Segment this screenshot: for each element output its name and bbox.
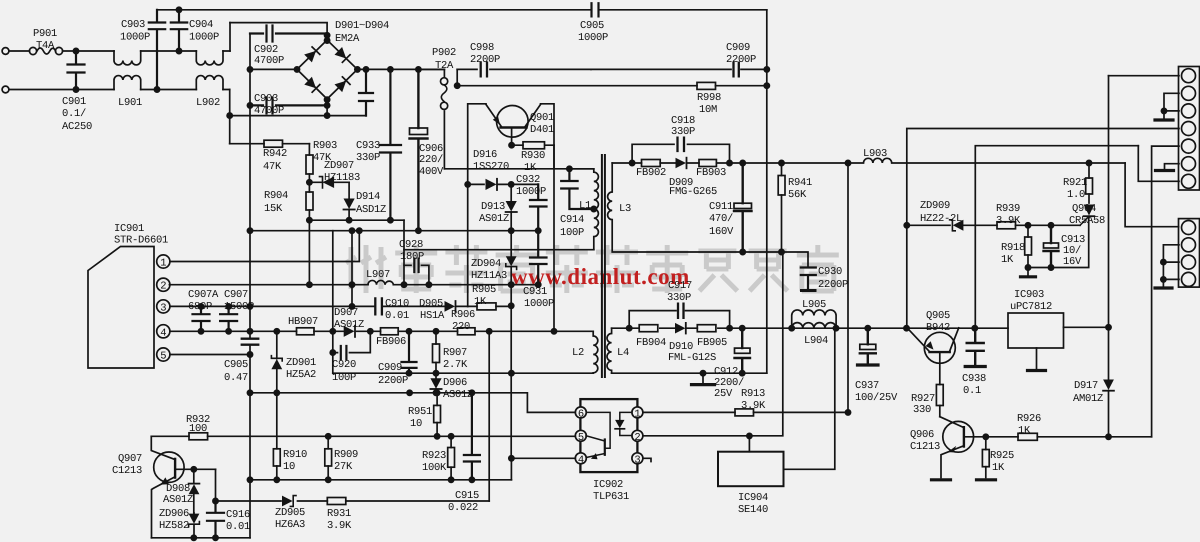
zener ZD907 HZ1183 (309, 181, 349, 183)
svg-text:100P: 100P (560, 227, 584, 239)
wire C998 corner down to R998 line (456, 69, 458, 85)
svg-text:CR5A58: CR5A58 (1069, 215, 1105, 227)
svg-text:1SS270: 1SS270 (473, 161, 509, 173)
svg-text:R941: R941 (788, 177, 812, 189)
wire Q907 base to C916 (215, 469, 217, 501)
wire pin7 line to x=975 riser (975, 146, 1138, 329)
capacitor C920 100P loop (333, 331, 371, 352)
svg-text:AC250: AC250 (62, 121, 92, 133)
transistor Q906 C1213 (943, 421, 974, 452)
wire opto pin1 line R913 (643, 411, 848, 413)
node D913/C932 bottoms (511, 230, 538, 232)
svg-text:400V: 400V (419, 166, 444, 178)
pin 1 (157, 255, 170, 268)
transformer T901 core (602, 155, 605, 377)
wire DC minus from left vertex (250, 68, 297, 70)
svg-text:SE140: SE140 (738, 504, 768, 516)
wire R926 line y=436.8 (964, 436, 1152, 438)
svg-text:HZ582: HZ582 (159, 520, 189, 532)
svg-text:L902: L902 (196, 97, 220, 109)
capacitor C912 2200/25V (735, 328, 751, 373)
wire x=333 down to L2-return (332, 353, 334, 374)
ground Q906 emitter (932, 478, 951, 481)
IC901 body STR-D6601 (88, 247, 154, 369)
svg-text:HS1A: HS1A (420, 310, 445, 322)
svg-text:L3: L3 (619, 203, 631, 215)
resistor R923 100K (450, 436, 452, 480)
svg-text:FML-G12S: FML-G12S (668, 352, 716, 364)
svg-text:47K: 47K (263, 161, 282, 173)
svg-text:C901: C901 (62, 96, 86, 108)
wire IC901 pin2 line y=284.7 (169, 284, 538, 286)
wire AC-N line to bridge bottom vertex (230, 100, 327, 116)
svg-text:ZD907: ZD907 (324, 160, 354, 172)
ground IC903 (1036, 348, 1038, 369)
svg-text:P901: P901 (33, 28, 57, 40)
winding L2 (593, 331, 598, 373)
svg-text:HZ5A2: HZ5A2 (286, 369, 316, 381)
node ZD909 line tap (904, 223, 909, 228)
svg-text:2200P: 2200P (378, 375, 408, 387)
svg-text:2: 2 (634, 432, 640, 444)
capacitor C902 4700P X-cap (250, 26, 327, 42)
winding L1 upper (569, 169, 598, 209)
wire rail A to bridge top vertex (230, 23, 327, 36)
svg-text:1: 1 (634, 408, 640, 420)
ground R925 (977, 478, 996, 481)
diode D916 1SS270 (468, 183, 539, 185)
wire x=276.8 R910 below (276, 393, 278, 480)
bridge diode top-left (304, 51, 316, 63)
wire D917 vertical x=1108.5 pin1 to R926 line (1108, 76, 1110, 437)
svg-text:FB902: FB902 (636, 167, 666, 179)
wire L3 top to FB902 line y=163 (612, 162, 848, 164)
zener ZD906 HZ582 (193, 513, 195, 538)
diode D909 FMG-G265 (676, 158, 687, 169)
capacitor C905 0.47 (242, 339, 258, 345)
capacitor C903 Y-cap upper (149, 10, 165, 90)
zener ZD909 HZ22-2L (907, 224, 997, 226)
node bridge left vertex (294, 67, 299, 72)
svg-text:C905: C905 (580, 20, 604, 32)
svg-text:330: 330 (913, 404, 931, 416)
ferrite bead FB902 (642, 160, 661, 167)
svg-text:D913: D913 (481, 201, 505, 213)
svg-text:R909: R909 (334, 449, 358, 461)
wire R904/D914 bottom line y=220.2 (309, 219, 404, 221)
inductor L907 (368, 280, 393, 284)
svg-text:2.7K: 2.7K (443, 359, 468, 371)
svg-text:0.1: 0.1 (963, 385, 981, 397)
wire top rail right corner down (766, 10, 768, 373)
svg-text:4700P: 4700P (254, 55, 284, 67)
ground R918/C913 (1027, 268, 1029, 276)
resistor R951 10 (436, 393, 438, 437)
pin 6 (575, 407, 586, 418)
pin 5 (575, 430, 586, 441)
diode D907 AS01Z (344, 326, 355, 337)
svg-text:STR-D6601: STR-D6601 (114, 235, 168, 247)
svg-text:C903: C903 (121, 19, 145, 31)
capacitor C901 (68, 51, 85, 90)
wire x=467.7 D916-to-R905 (467, 184, 469, 306)
svg-text:1000P: 1000P (120, 32, 150, 44)
svg-text:330P: 330P (667, 292, 691, 304)
svg-text:1K: 1K (1001, 254, 1014, 266)
wire IC901 pin5 line (170, 354, 250, 356)
ferrite bead FB903 (699, 160, 716, 167)
node bridge top vertex dots (325, 33, 330, 38)
wire primary ground rail y=230.7 (250, 230, 511, 232)
wire x=352 rail-to-pin3 (351, 231, 353, 307)
wire CN1 pin6 ground (1165, 164, 1180, 169)
svg-text:Q904: Q904 (1072, 203, 1096, 215)
svg-text:C998: C998 (470, 42, 494, 54)
node bridge right vertex (355, 67, 360, 72)
svg-text:C904: C904 (189, 19, 213, 31)
wire pin3-line to C910 (384, 305, 445, 307)
pin numbers IC902 (578, 408, 641, 466)
wire between chokes top (141, 50, 197, 52)
svg-text:16V: 16V (1063, 256, 1082, 268)
svg-text:C916: C916 (226, 509, 250, 521)
svg-text:3.9K: 3.9K (327, 520, 352, 532)
wire x=404 riser to 220-line (403, 220, 405, 265)
resistor R903 47K (308, 144, 310, 183)
svg-text:R923: R923 (422, 450, 446, 462)
svg-text:ASD1Z: ASD1Z (356, 204, 386, 216)
svg-text:L907: L907 (366, 269, 390, 281)
svg-text:Q907: Q907 (118, 453, 142, 465)
svg-text:1K: 1K (1018, 425, 1031, 437)
svg-text:AM01Z: AM01Z (1073, 393, 1103, 405)
connector CN2 block (1179, 219, 1200, 288)
svg-text:R921: R921 (1063, 177, 1087, 189)
winding L1 lower (594, 209, 599, 250)
svg-text:10: 10 (410, 418, 422, 430)
svg-text:R913: R913 (741, 388, 765, 400)
wire AC line bottom (9, 89, 114, 91)
wire DC plus line y=69.4 (357, 68, 444, 70)
svg-text:D916: D916 (473, 149, 497, 161)
svg-text:D905: D905 (419, 298, 443, 310)
svg-text:uPC7812: uPC7812 (1010, 301, 1052, 313)
wire IC903 out (1064, 326, 1109, 328)
wire x=489.2 R906-line down to ZD905 line (488, 331, 490, 501)
winding L4 (607, 328, 612, 373)
pin 3 (157, 300, 170, 313)
svg-text:B942: B942 (926, 322, 950, 334)
wire lower return y=479.8 (250, 479, 511, 481)
svg-text:C1213: C1213 (910, 441, 940, 453)
svg-text:C910: C910 (385, 298, 409, 310)
svg-text:FB903: FB903 (696, 167, 726, 179)
svg-text:C933: C933 (356, 140, 380, 152)
ferrite bead FB904 (639, 325, 658, 332)
wire x=250 down to bottom rail (249, 480, 251, 538)
svg-text:100P: 100P (332, 372, 356, 384)
svg-text:4: 4 (578, 454, 584, 466)
resistor R925 1K (985, 437, 987, 478)
resistor R904 15K (308, 182, 310, 220)
resistor R930 1K (512, 144, 554, 146)
wire secondary return y=250 (743, 252, 808, 268)
inductor L902 common-mode choke (196, 51, 223, 65)
svg-text:C905: C905 (224, 359, 248, 371)
wire L4 top line y=328.2 (612, 327, 1008, 329)
diode D906 AS01Z (435, 373, 437, 393)
wire B+ line y=168.8 (444, 168, 593, 170)
svg-text:T4A: T4A (36, 40, 55, 52)
svg-text:R939: R939 (996, 203, 1020, 215)
svg-text:330P: 330P (671, 126, 695, 138)
capacitor C906 220/400V electrolytic (410, 69, 428, 230)
svg-text:FB906: FB906 (376, 336, 406, 348)
wire ZD904 vertical continues to L2-return and pin4 stub (510, 306, 512, 459)
svg-text:C909: C909 (726, 42, 750, 54)
capacitor C909 2200P (402, 331, 417, 373)
wire ZD905 line y=501 (216, 500, 490, 502)
svg-text:C920: C920 (332, 359, 356, 371)
pin 4 (575, 453, 586, 464)
pin 2 (157, 278, 170, 291)
transistor Q901 D401 (497, 106, 529, 138)
svg-text:D401: D401 (530, 124, 554, 136)
svg-text:27K: 27K (334, 461, 353, 473)
capacitor C932 1000P (530, 184, 547, 230)
svg-text:AS01Z: AS01Z (163, 494, 193, 506)
wire IC901 pin3 line y=306.4 (170, 305, 375, 307)
svg-text:D901~D904: D901~D904 (335, 20, 389, 32)
svg-text:C1213: C1213 (112, 465, 142, 477)
svg-text:330P: 330P (356, 152, 380, 164)
svg-text:1K: 1K (524, 162, 537, 174)
resistor R926 1K (1018, 433, 1037, 440)
svg-text:D906: D906 (443, 377, 467, 389)
pin 3 (632, 453, 643, 464)
svg-text:HZ22-2L: HZ22-2L (920, 213, 962, 225)
svg-text:56K: 56K (788, 189, 807, 201)
node L1 tap (591, 206, 596, 211)
bridge D901~D904 diamond (297, 40, 357, 99)
svg-text:100K: 100K (422, 462, 447, 474)
capacitor C907 1500P (220, 306, 237, 331)
diode D917 AM01Z (1103, 380, 1114, 391)
IC904 SE140 box (718, 452, 784, 487)
svg-text:2200P: 2200P (726, 54, 756, 66)
thyristor Q904 CR5A58 (1084, 205, 1095, 216)
svg-text:L1: L1 (579, 200, 591, 212)
wire IC904 top pin (748, 436, 750, 452)
capacitor C937 100/25V (860, 328, 876, 363)
svg-text:R925: R925 (990, 450, 1014, 462)
svg-text:P902: P902 (432, 47, 456, 59)
svg-text:1K: 1K (992, 462, 1005, 474)
resistor R932 100 (189, 433, 208, 440)
optocoupler IC902 TLP631 box (580, 399, 637, 472)
resistor R913 3.9K (735, 409, 754, 416)
wire x=250 continues below (249, 393, 251, 480)
svg-text:R951: R951 (408, 406, 432, 418)
svg-text:R904: R904 (264, 190, 288, 202)
svg-text:IC901: IC901 (114, 223, 144, 235)
svg-text:0.01: 0.01 (385, 310, 409, 322)
svg-text:C937: C937 (855, 380, 879, 392)
inductor L901 common-mode choke (114, 51, 141, 65)
wire R998 line y=85.7 (457, 85, 767, 87)
diode D914 ASD1Z (348, 182, 350, 220)
wire riser top AC to rail A (229, 23, 231, 51)
svg-text:IC903: IC903 (1014, 289, 1044, 301)
svg-text:L905: L905 (802, 299, 826, 311)
svg-text:FMG-G265: FMG-G265 (669, 186, 717, 198)
pin 4 (157, 325, 170, 338)
bridge diode bottom-left (304, 77, 316, 89)
svg-text:C907A C907: C907A C907 (188, 289, 248, 301)
svg-text:6: 6 (578, 408, 584, 420)
capacitor C913 10/16V (1044, 225, 1059, 267)
svg-text:HZ1183: HZ1183 (324, 172, 360, 184)
wire primary return y=249.7 (404, 249, 594, 251)
svg-text:R906: R906 (451, 309, 475, 321)
wire C998/C909 line continue (591, 68, 767, 70)
transistor Q905 B942 (924, 332, 955, 363)
opto LED internal (620, 412, 632, 435)
svg-text:100/25V: 100/25V (855, 392, 898, 404)
resistor R910 10 (273, 449, 280, 466)
capacitor C930 2200P (801, 268, 816, 290)
capacitor C907A 680P (193, 306, 210, 331)
wire between chokes bottom (141, 89, 197, 91)
svg-text:C931: C931 (523, 286, 547, 298)
svg-text:R903: R903 (313, 140, 337, 152)
svg-text:10: 10 (283, 461, 295, 473)
svg-text:R918: R918 (1001, 242, 1025, 254)
opto phototransistor internal (604, 440, 606, 455)
svg-text:IC904: IC904 (738, 492, 768, 504)
zener ZD905 HZ6A3 (282, 496, 293, 507)
winding L3 (608, 163, 743, 252)
resistor R905 1K (468, 305, 512, 307)
wire pin5 riser x=1151.6 (1152, 146, 1179, 437)
svg-text:FB905: FB905 (697, 337, 727, 349)
capacitor C903 4700P X-cap (250, 97, 327, 113)
diode D913 AS01Z (510, 184, 512, 230)
svg-text:0.01: 0.01 (226, 521, 250, 533)
inductor L904 (792, 323, 836, 329)
svg-text:L4: L4 (617, 347, 629, 359)
connector CN1 block (1179, 67, 1200, 191)
wire L4 bottom rail y=373.2 (612, 372, 767, 374)
capacitor C916 0.01 (207, 501, 224, 538)
svg-text:C932: C932 (516, 174, 540, 186)
svg-text:D907: D907 (334, 307, 358, 319)
svg-text:D917: D917 (1074, 380, 1098, 392)
svg-text:AS01Z: AS01Z (443, 389, 473, 401)
wire IC901 pin6 line y=392.8 (250, 393, 575, 413)
shield box around Q901 (468, 104, 554, 169)
wire L902 to AC risers (223, 51, 230, 90)
svg-text:ZD909: ZD909 (920, 200, 950, 212)
svg-text:3: 3 (634, 454, 640, 466)
resistor R907 2.7K (435, 331, 437, 373)
svg-text:1.0: 1.0 (1067, 189, 1085, 201)
svg-text:1K: 1K (474, 296, 487, 308)
wire x=309.4 down to pin2 line (308, 220, 310, 285)
connector P901 input terminals (2, 48, 9, 55)
bridge diode top-right (335, 47, 347, 59)
zener ZD901 HZ5A2 (276, 331, 278, 393)
wire opto pin3 stub (643, 458, 651, 461)
svg-text:5: 5 (160, 351, 166, 363)
resistor R941 56K (781, 163, 783, 252)
svg-text:AS01Z: AS01Z (334, 319, 364, 331)
transistor Q907 C1213 (154, 452, 184, 482)
svg-text:L2: L2 (572, 347, 584, 359)
svg-text:HZ11A3: HZ11A3 (471, 270, 507, 282)
capacitor C938 0.1 (967, 328, 984, 365)
capacitor C909 2200P series (734, 63, 739, 77)
svg-text:2200P: 2200P (818, 279, 848, 291)
svg-text:C909: C909 (378, 362, 402, 374)
svg-text:HB907: HB907 (288, 316, 318, 328)
svg-text:C911: C911 (709, 201, 733, 213)
wire L2 return line y=373.2 (333, 372, 593, 374)
wire L903 line corner down to block2 pin1 (1125, 163, 1178, 227)
svg-text:C903: C903 (254, 93, 278, 105)
svg-text:4: 4 (160, 327, 166, 339)
svg-text:R931: R931 (327, 508, 351, 520)
svg-text:1000P: 1000P (189, 32, 219, 44)
resistor R939 3.9K (997, 222, 1016, 229)
wire IC904 right pin to L904 node (784, 328, 835, 469)
svg-text:1: 1 (160, 258, 166, 270)
wire opto pin4 line (511, 458, 575, 480)
svg-text:10M: 10M (699, 104, 717, 116)
capacitor C933 330P (380, 69, 401, 220)
svg-text:R998: R998 (697, 92, 721, 104)
wire IC901 pin1 line (170, 231, 359, 262)
wire x=332.8 rail to D907 line (332, 231, 334, 332)
svg-text:ZD905: ZD905 (275, 507, 305, 519)
wire box left edge down to D916 (467, 169, 469, 185)
svg-text:0.1/: 0.1/ (62, 108, 86, 120)
wire top rail (157, 9, 767, 11)
svg-text:TLP631: TLP631 (593, 491, 629, 503)
svg-text:ZD906: ZD906 (159, 508, 189, 520)
svg-text:160V: 160V (709, 226, 734, 238)
svg-text:C938: C938 (962, 373, 986, 385)
wire IC901 pin5 line left R932 (151, 435, 575, 437)
svg-text:3: 3 (160, 302, 166, 314)
wire pin4 line y=128.5 (907, 129, 1179, 329)
svg-text:1000P: 1000P (524, 298, 554, 310)
svg-text:2200P: 2200P (470, 54, 500, 66)
wire pin1 line y=75.7 (1109, 75, 1180, 77)
svg-text:Q906: Q906 (910, 429, 934, 441)
resistor R998 10M (697, 82, 716, 89)
capacitor C918 330P loop (632, 144, 729, 163)
capacitor C928 180P loop (404, 265, 429, 284)
ferrite bead FB906 (381, 328, 399, 335)
wire opto pin2 line (643, 252, 783, 436)
svg-text:R907: R907 (443, 347, 467, 359)
watermark gray company name (vector strokes) (346, 245, 839, 293)
svg-text:220: 220 (452, 321, 470, 333)
svg-text:4700P: 4700P (254, 105, 284, 117)
svg-text:L904: L904 (804, 335, 828, 347)
svg-text:C915: C915 (455, 490, 479, 502)
